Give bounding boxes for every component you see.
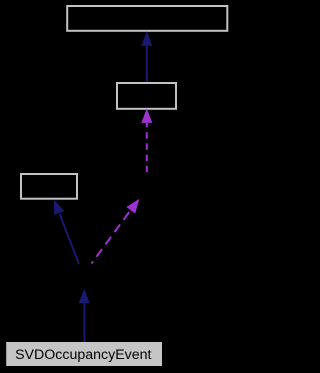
edge: usage arrow, invisible node to middle box (dashed purple, vertical) xyxy=(141,108,152,174)
edge: inheritance arrow, middle box to top box (solid dark blue) xyxy=(141,31,152,82)
edge: inheritance arrow, lower invisible node to left box (solid dark blue, diagonal) xyxy=(54,200,79,265)
node: top base-class box (empty) xyxy=(67,6,227,31)
edge: inheritance arrow, SVDOccupancyEvent to lower invisible node (solid dark blue) xyxy=(79,289,90,342)
svg-text:SVDOccupancyEvent: SVDOccupancyEvent xyxy=(15,347,151,363)
edge: usage arrow, lower invisible node to upper invisible node (dashed purple, diagonal) xyxy=(92,199,140,264)
node: middle base-class box (empty) xyxy=(117,83,176,109)
node: left base-class box (empty) xyxy=(21,174,77,199)
node: SVDOccupancyEvent (current class, grey filled) xyxy=(6,342,162,366)
